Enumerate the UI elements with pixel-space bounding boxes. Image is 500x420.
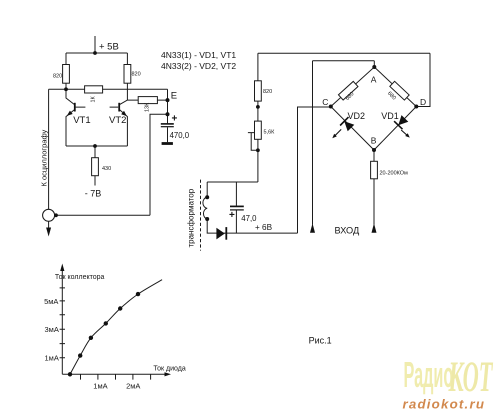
svg-text:E: E: [171, 90, 177, 101]
svg-text:1К: 1К: [91, 95, 97, 102]
svg-text:1мА: 1мА: [45, 354, 59, 363]
svg-text:C: C: [322, 97, 328, 107]
svg-text:430: 430: [102, 166, 111, 172]
svg-text:20-200КОм: 20-200КОм: [380, 171, 409, 177]
svg-text:К осциллографу: К осциллографу: [39, 129, 48, 186]
svg-text:4N33(2) - VD2, VT2: 4N33(2) - VD2, VT2: [161, 61, 236, 71]
svg-text:5,6К: 5,6К: [264, 129, 276, 135]
svg-text:Ток диода: Ток диода: [153, 365, 185, 372]
svg-text:КОТ: КОТ: [448, 353, 494, 401]
svg-text:3мА: 3мА: [45, 325, 59, 334]
svg-text:470,0: 470,0: [170, 131, 190, 140]
svg-text:820: 820: [132, 72, 141, 78]
svg-text:820: 820: [53, 74, 62, 80]
svg-text:820: 820: [263, 89, 272, 95]
svg-text:2мА: 2мА: [126, 381, 140, 390]
svg-text:ВХОД: ВХОД: [335, 225, 360, 235]
svg-text:B: B: [371, 136, 377, 146]
svg-text:+ 6В: + 6В: [255, 223, 273, 232]
svg-text:+: +: [229, 210, 235, 221]
svg-text:4N33(1) - VD1, VT1: 4N33(1) - VD1, VT1: [161, 50, 236, 60]
svg-text:radiokot.ru: radiokot.ru: [403, 396, 486, 411]
svg-text:трансформатор: трансформатор: [187, 188, 196, 247]
svg-text:47,0: 47,0: [241, 214, 257, 223]
svg-text:D: D: [420, 97, 426, 107]
svg-text:VT2: VT2: [109, 115, 126, 126]
svg-text:1мА: 1мА: [93, 381, 107, 390]
svg-text:- 7В: - 7В: [85, 188, 102, 198]
svg-text:Рис.1: Рис.1: [309, 335, 332, 345]
svg-text:13К: 13К: [145, 102, 151, 112]
svg-text:+: +: [172, 114, 178, 125]
svg-text:Радио: Радио: [404, 355, 454, 395]
svg-text:A: A: [371, 74, 377, 84]
svg-text:VD1: VD1: [381, 111, 399, 121]
svg-text:5мА: 5мА: [44, 297, 58, 306]
svg-text:Ток коллектора: Ток коллектора: [55, 274, 105, 281]
svg-text:VT1: VT1: [73, 115, 90, 126]
svg-text:+ 5В: + 5В: [99, 42, 119, 53]
svg-text:VD2: VD2: [348, 111, 366, 121]
